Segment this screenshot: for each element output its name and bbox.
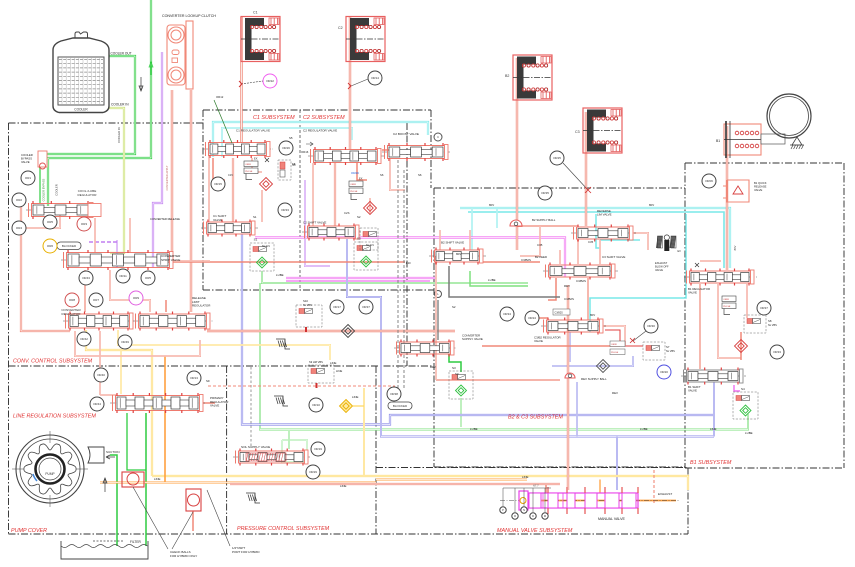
svg-text:CONVERTER RELEASE: CONVERTER RELEASE [150,217,180,221]
wire E10 exhaust [168,261,405,263]
svg-text:LINE REGULATION SUBSYSTEM: LINE REGULATION SUBSYSTEM [13,414,96,420]
svg-text:S5: S5 [289,136,293,140]
svg-text:LUBE: LUBE [470,427,478,431]
pump cover / pressure control dividers [9,533,689,535]
orifice diamond B1 [735,340,748,353]
svg-text:OR22: OR22 [266,79,274,83]
svg-text:COOLER IN: COOLER IN [111,103,129,107]
node OR19 at 318,449 [311,442,325,456]
svg-text:REGULATOR: REGULATOR [192,304,211,308]
svg-text:C2 BOOST VALVE: C2 BOOST VALVE [393,132,419,136]
boxed pair C1 [244,161,258,167]
svg-text:BLOCKED: BLOCKED [393,404,408,408]
svg-text:C3/B2S: C3/B2S [521,258,531,262]
node OR7 at 96,300 [89,293,103,307]
svg-text:80V: 80V [456,252,461,256]
filter sump [61,545,147,548]
svg-text:OR20: OR20 [660,370,668,374]
svg-text:EXHAUST: EXHAUST [655,261,668,265]
valve C2 boost [382,151,451,153]
svg-text:OR44: OR44 [93,402,101,406]
svg-text:S4: S4 [741,387,745,391]
svg-text:B2 SUPPLY BALL: B2 SUPPLY BALL [532,218,556,222]
manual valve subsystem box [376,467,688,469]
wire exhaust dashed [653,470,655,505]
valve C3B2 regulator [541,325,606,327]
svg-text:SUCTION: SUCTION [106,450,120,454]
solenoid S4 [733,392,758,419]
pressure control inner dashed [250,367,252,448]
valve C2 shift [302,231,362,233]
svg-text:S2: S2 [357,215,361,219]
svg-text:VALVE: VALVE [210,404,219,408]
node OR22 at 270,81 [263,74,277,88]
wire line yellow main [152,476,688,490]
gear pump [16,435,84,503]
svg-text:LINE: LINE [352,395,358,399]
wire S1 magenta [255,238,565,278]
svg-text:OR25: OR25 [553,156,561,160]
wire C1C2 magenta lower [286,277,436,279]
wire S9 dashed [208,385,395,387]
node OR14 at 375,78 [368,71,382,85]
wire line main salmon [230,483,560,485]
band drum circle [767,94,811,138]
svg-text:COOLER: COOLER [74,108,88,112]
wire S3 lube drop green [460,398,462,427]
leader OR22 [241,81,263,84]
svg-text:EX: EX [254,157,258,161]
B1 quick release valve [723,180,749,202]
svg-text:B2 & C3 SUBSYSTEM: B2 & C3 SUBSYSTEM [508,415,563,421]
svg-text:C2 SUBSYSTEM: C2 SUBSYSTEM [303,115,345,121]
svg-text:CONVERTER LOOKUP CLUTCH: CONVERTER LOOKUP CLUTCH [162,14,216,18]
node OR38 at 394,394 [387,387,401,401]
wire conv supply to S3 green [449,354,461,372]
svg-text:P: P [502,508,504,512]
wire manual valve P stub [545,484,547,493]
svg-text:EXHAUST: EXHAUST [658,492,672,496]
node OR24 at 532,318 [525,311,539,325]
orifice diamond C2 [364,202,377,215]
wire S1 drop blue [242,234,714,425]
svg-text:B2: B2 [505,74,509,78]
svg-text:OR49: OR49 [121,340,129,344]
wire C2 purple [305,180,330,266]
wire C3 feed [585,112,587,226]
node OR29 at 313,472 [306,465,320,479]
svg-text:80V: 80V [489,203,494,207]
node OR49 at 125,342 [118,335,132,349]
svg-text:OR37: OR37 [760,306,768,310]
wire primary reg yellow [120,350,122,394]
wire pcs yellow diamond [363,388,365,476]
svg-text:FOR HYBRID ONLY: FOR HYBRID ONLY [170,554,197,558]
svg-text:OR29: OR29 [351,171,359,175]
node OR34 at 507,314 [500,307,514,321]
svg-text:LUBE: LUBE [745,431,753,435]
svg-text:C1: C1 [253,11,258,15]
valve release limit regulator [133,320,213,322]
svg-text:LINE: LINE [522,475,528,479]
svg-text:VALVE: VALVE [688,389,697,393]
svg-text:LINE: LINE [330,361,336,365]
node OR25 at 557,158 [550,151,564,165]
svg-text:REGULATOR: REGULATOR [62,312,82,316]
svg-text:B2 FEED: B2 FEED [535,255,547,259]
leader OR12 [214,100,232,143]
valve cool/lube regulator [26,209,96,211]
wire conv shift to reg [84,270,86,312]
wire lube supply green vertical [48,0,151,206]
node OR3 at 84,224 [77,217,91,231]
svg-text:80V: 80V [590,313,595,317]
svg-text:S6: S6 [418,173,422,177]
svg-text:PULSE: PULSE [723,306,731,308]
node OR40 at 101,375 [94,368,108,382]
svg-text:PULSE: PULSE [245,171,253,173]
wire lube drop green [259,283,261,425]
svg-text:ORIFI: ORIFI [350,184,356,186]
node OR42 at 84,339 [77,332,91,346]
orifice diamond yellow [340,400,353,413]
wire lube to S1 S2 green [262,271,528,283]
spring PCS 2 [274,396,288,406]
node OR37 at 366,307 [359,300,373,314]
svg-text:80V: 80V [649,203,654,207]
node OR9 at 136,298 [129,291,143,305]
clutch drum C3 [583,108,622,153]
svg-text:OR42: OR42 [80,337,88,341]
svg-text:S6: S6 [380,173,384,177]
svg-text:OR43: OR43 [82,276,90,280]
svg-text:OR19: OR19 [314,447,322,451]
wire B1 reg internals [699,284,701,369]
wire C2 internals [369,198,371,214]
node OR4 at 19,228 [12,221,26,235]
svg-text:LIM VALVE: LIM VALVE [597,213,612,217]
svg-text:MANUAL VALVE SUBSYSTEM: MANUAL VALVE SUBSYSTEM [497,528,573,534]
wire converter apply purple [153,52,162,268]
svg-text:LUBE: LUBE [276,273,284,277]
wire lockup release [171,90,173,252]
svg-text:C2S: C2S [344,211,350,215]
node OR6 at 50,246 [43,239,57,253]
wire release limit feed [165,300,167,312]
B2 C3 subsystem box [434,187,685,189]
svg-text:OR24: OR24 [528,316,536,320]
svg-text:MANUAL VALVE: MANUAL VALVE [598,517,625,521]
label suction arrow [106,455,115,459]
svg-text:LUBE: LUBE [640,427,648,431]
wire checkball2 drop [192,511,194,531]
node OR2 at 19,200 [12,193,26,207]
svg-text:PUMP COVER: PUMP COVER [11,528,47,534]
conv control subsystem box (left) [9,122,206,124]
x mark C1 [265,158,269,162]
svg-text:REV: REV [612,391,618,395]
svg-text:80V: 80V [733,245,737,250]
svg-text:PULSE: PULSE [611,352,619,354]
svg-text:C2 REGULATOR VALVE: C2 REGULATOR VALVE [303,129,337,133]
svg-text:PUMP: PUMP [45,472,54,476]
supply ball B2 [510,220,522,226]
svg-text:CONV. CONTROL SUBSYSTEM: CONV. CONTROL SUBSYSTEM [13,359,93,365]
svg-text:EX: EX [678,250,682,253]
svg-text:VALVE: VALVE [534,339,543,343]
svg-text:OR40: OR40 [97,373,105,377]
wire lube manifold green [260,414,748,430]
blocked label 2 [388,402,412,410]
svg-text:C15: C15 [228,173,233,177]
svg-text:S1: S1 [253,215,257,219]
flow arrow down [140,77,142,91]
svg-text:VALVE: VALVE [688,291,697,295]
svg-text:ORIFI: ORIFI [611,344,617,346]
valve C1 regulator [203,148,273,150]
svg-text:SHIFT VALVE: SHIFT VALVE [161,258,180,262]
leader OR14 [351,79,368,86]
wire C2 boost link [382,149,389,151]
wire conv ctl left [21,204,70,331]
wire S2 drop blue [347,239,714,437]
svg-text:67.7: 67.7 [533,484,539,488]
svg-text:PULSE: PULSE [350,191,358,193]
pump suction stub [88,447,104,463]
svg-text:S8: S8 [768,319,772,323]
svg-text:VALVE: VALVE [655,268,663,272]
node OR1 at 28,178 [21,171,35,185]
leader OR25 [563,163,588,190]
svg-text:NL O/1: NL O/1 [262,245,270,248]
valve B2 shift [429,255,486,257]
svg-text:OR33: OR33 [281,208,289,212]
node OR15 at 218,184 [211,177,225,191]
svg-text:C3: C3 [575,130,580,134]
exhaust blow off valve [658,236,663,248]
svg-text:LINE: LINE [710,427,716,431]
svg-text:OR15: OR15 [214,182,222,186]
svg-text:E10: E10 [406,261,411,265]
wire conv reg bottom [75,331,200,356]
svg-text:C3/B2S: C3/B2S [564,297,574,301]
spring PCS 1 [276,339,290,349]
wire cooler-out green [44,56,135,163]
node OR13 at 194,378 [187,371,201,385]
solenoid S3 [449,371,473,399]
wire c3b2 reg bits [600,326,625,345]
svg-text:C: C [437,135,439,139]
clutch drum C1 [241,17,280,62]
svg-text:SUPPLY VALVE: SUPPLY VALVE [462,337,483,341]
svg-text:OR06: OR06 [705,179,713,183]
wire sol supply green loop [282,440,307,462]
wire 80V cyan B2C3 [496,209,498,228]
wire conv reg yellow [118,330,330,360]
svg-text:S3: S3 [452,366,456,370]
wire cooler bypass green [39,167,41,204]
svg-text:C35: C35 [537,243,543,247]
svg-text:C3 SHIFT VALVE: C3 SHIFT VALVE [602,255,625,259]
valve reverse lim [571,232,636,234]
svg-text:OR3: OR3 [81,222,88,226]
wire b2c3 bottom [436,379,560,381]
C1 C2 subsystem box [203,109,431,111]
wire reg limit out [207,330,455,332]
wire manual valve center orange [520,500,676,502]
svg-text:OR34: OR34 [503,312,511,316]
svg-text:REV: REV [430,365,436,369]
wire primary reg feed [100,394,117,396]
node OR30 at 651,326 [644,319,658,333]
svg-text:NL VBS: NL VBS [666,350,675,353]
svg-text:BLOCKED: BLOCKED [62,244,77,248]
boxed label ORIF pair [610,341,625,347]
node OR35 at 545,193 [538,186,552,200]
svg-text:REV SUPPLY BALL: REV SUPPLY BALL [581,377,607,381]
svg-text:C35: C35 [588,240,594,244]
svg-text:D: D [532,514,534,518]
wire pump suction green [110,455,117,546]
node OR26 at 286,148 [279,141,293,155]
flow arrow green up [150,62,152,75]
svg-text:LINE: LINE [336,369,342,373]
svg-text:S2: S2 [452,305,456,309]
svg-text:B1 SUBSYSTEM: B1 SUBSYSTEM [690,460,732,466]
wire release limit yellow [86,330,152,476]
orifice diamond PCS [342,325,355,338]
solenoid S1 [250,243,274,271]
svg-text:OR14: OR14 [371,76,379,80]
wire B2 feed [516,58,518,250]
valve converter regulator [63,320,136,322]
node L circle [435,291,442,298]
valve cooler bypass [38,151,47,167]
wire pump line orange [100,482,376,484]
valve sol supply [233,456,311,458]
flow arrow line up [104,478,106,492]
wire 80V cyan main [460,208,730,268]
node OR44 at 97,404 [90,397,104,411]
svg-text:RELEASE: RELEASE [754,185,767,189]
svg-text:PRESSURE CONTROL SUBSYSTEM: PRESSURE CONTROL SUBSYSTEM [237,526,330,532]
svg-text:OR11: OR11 [119,274,127,278]
svg-text:B1: B1 [716,139,720,143]
spring PCS 3 [246,493,260,503]
B1 subsystem box [685,162,844,164]
svg-text:OR5: OR5 [145,276,152,280]
wire B1 S4 magenta stub [734,385,740,391]
solenoid S7 [643,342,665,360]
solenoid S8 [744,315,766,333]
svg-text:PORT FOR HYBRID: PORT FOR HYBRID [232,550,260,554]
wire C1 feed [240,17,242,143]
wire primary to line [200,402,215,404]
valve primary regulator [110,402,206,404]
svg-text:OR9: OR9 [133,296,140,300]
svg-text:OR6: OR6 [47,244,54,248]
valve converter shift [61,259,176,261]
svg-text:C1 REGULATOR VALVE: C1 REGULATOR VALVE [236,129,270,133]
svg-text:REV: REV [564,284,570,288]
wire gray c3b2s [449,266,560,297]
svg-text:NL VBS: NL VBS [768,324,777,327]
solenoid S5 [278,160,291,180]
wire B2 shift feeds [439,230,441,250]
node OR06 at 709,181 [702,174,716,188]
svg-text:R: R [514,514,516,518]
svg-text:VALVE: VALVE [213,218,222,222]
svg-text:ORIFI: ORIFI [723,299,729,301]
node OR20 at 664,372 [657,365,671,379]
clutch drum C2 [346,17,385,62]
node OR33 at 285,210 [278,203,292,217]
svg-text:FILTER: FILTER [130,540,141,544]
svg-text:S2: S2 [357,237,361,241]
svg-text:NL VBS: NL VBS [303,304,312,307]
svg-text:COOLER: COOLER [55,184,59,195]
node OR33 at 777,352 [770,345,784,359]
svg-text:OR4: OR4 [16,226,23,230]
svg-text:OR37: OR37 [362,305,370,309]
svg-text:OR1: OR1 [25,176,32,180]
svg-text:VALVE: VALVE [21,160,30,164]
valve C1 shift [201,227,258,229]
svg-text:LUBE: LUBE [488,278,496,282]
svg-text:S7: S7 [666,345,670,349]
orifice diamond rev [597,360,610,373]
B1 band servo [724,124,761,155]
x mark B1 [695,263,699,267]
solenoid S2 [354,242,378,270]
svg-text:S10: S10 [303,299,308,303]
valve B1 shift [681,375,746,377]
svg-text:C3/B2S: C3/B2S [555,312,564,315]
flow arrow C2 [306,142,313,146]
svg-text:S5: S5 [292,162,296,166]
svg-text:C2: C2 [338,26,343,30]
svg-text:C1 SUBSYSTEM: C1 SUBSYSTEM [253,115,295,121]
manual valve [500,500,680,502]
wire rev supply blue [569,332,571,362]
svg-text:NL O/1: NL O/1 [366,244,374,247]
node OR43 at 86,278 [79,271,93,285]
svg-text:OR30: OR30 [647,324,655,328]
svg-text:OR7: OR7 [93,298,100,302]
wire C2 reg drop [334,163,336,226]
svg-text:COOLER BYPASS: COOLER BYPASS [42,178,46,201]
svg-text:S3: S3 [455,372,459,376]
or30 leader [633,331,646,341]
check ball 1 [122,472,144,487]
svg-text:OR13: OR13 [190,376,198,380]
svg-text:OR2: OR2 [16,198,23,202]
svg-text:VALVE: VALVE [754,188,762,192]
wire C1 reg drop [232,158,234,222]
supply ball REV [565,373,575,378]
node OR5 at 148,278 [141,271,155,285]
svg-text:S9: S9 [206,379,210,383]
svg-text:OR38: OR38 [390,392,398,396]
wire C2 feed [349,17,351,150]
svg-text:OR29: OR29 [309,470,317,474]
node OR17 at 337,307 [330,300,344,314]
valve converter supply [394,347,457,349]
svg-text:ORIFI: ORIFI [245,164,251,166]
converter lockup clutch [167,25,185,85]
wire C1 internals [252,158,262,172]
wire B1 feed [726,126,728,270]
